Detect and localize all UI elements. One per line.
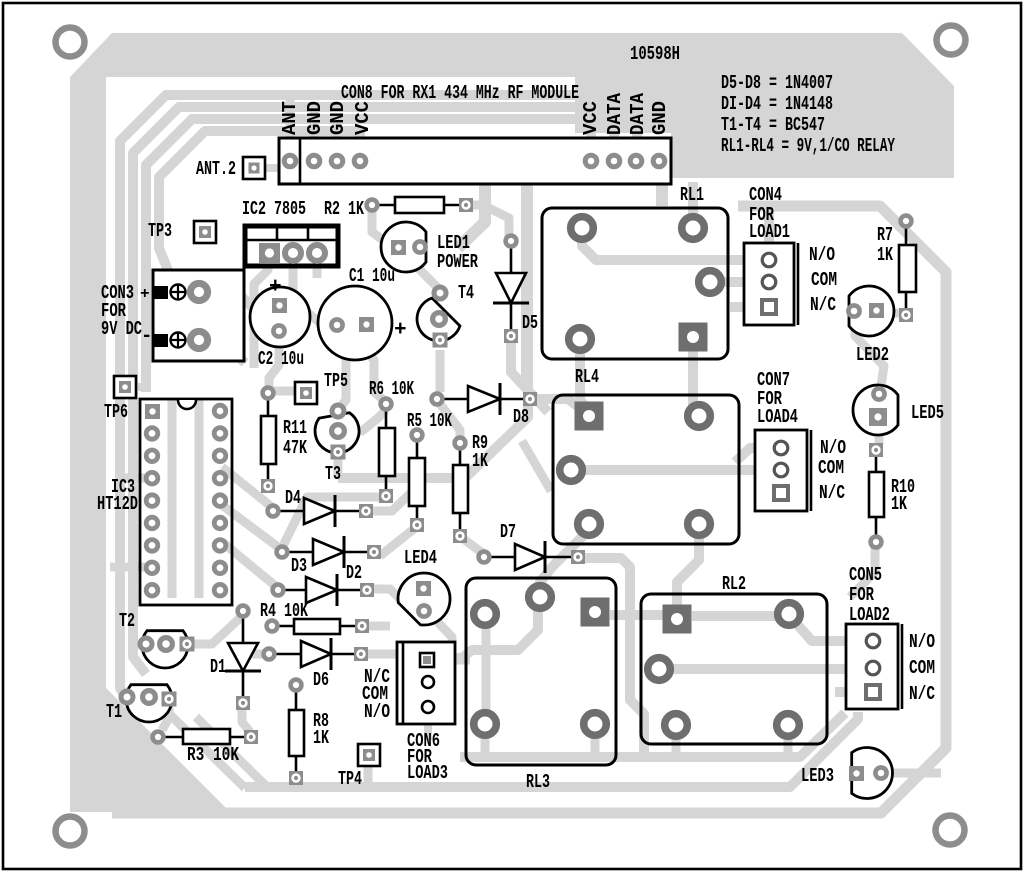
- svg-text:LOAD1: LOAD1: [749, 221, 790, 243]
- LED LED1: [381, 222, 426, 272]
- pad ANT.2: [243, 157, 265, 179]
- svg-text:D1: D1: [210, 656, 226, 678]
- connector CON4: [744, 243, 794, 325]
- wire (T3 square to band): [334, 456, 343, 476]
- resistor R7 1K: [905, 221, 908, 245]
- capacitor C2 10u: [250, 287, 310, 347]
- resistor R3 10K: [158, 736, 183, 739]
- wire (LED1 to T4): [420, 252, 438, 288]
- svg-text:T1-T4 = BC547: T1-T4 = BC547: [721, 114, 825, 136]
- wire (CON3 - diagonal): [198, 340, 245, 363]
- wire (CON3 + to C2): [198, 293, 258, 313]
- wire (D1 to R3): [242, 708, 250, 732]
- resistor R2 1K: [372, 204, 395, 207]
- capacitor C1 10u: [318, 286, 392, 360]
- svg-text:N/C: N/C: [819, 482, 845, 504]
- wire (IC2 pin stub): [254, 258, 268, 368]
- wire (T1 to R3): [162, 702, 169, 730]
- wire (RL2 pad stub 1): [672, 730, 681, 757]
- resistor R5 10K: [416, 435, 419, 458]
- wire (LED3 to edge ring): [887, 769, 941, 778]
- svg-text:D7: D7: [500, 521, 516, 543]
- wire (R8 to bottom trace): [291, 780, 300, 787]
- diode D3: [282, 551, 374, 554]
- wire (D8 to RL4): [538, 399, 580, 408]
- svg-text:ANT: ANT: [279, 101, 301, 135]
- wire (LED2 to LED5): [855, 318, 884, 392]
- LED LED2: [849, 286, 894, 336]
- resistor R6 10K: [385, 404, 388, 428]
- wire (RL1 pad to CON4 N/O): [582, 234, 769, 260]
- svg-text:TP6: TP6: [104, 401, 128, 423]
- wire (CON5 N/O to RL2): [795, 622, 867, 641]
- svg-text:HT12D: HT12D: [97, 493, 138, 515]
- wire (CON8 wrap trace 4): [159, 131, 360, 293]
- connector CON6: [397, 642, 455, 724]
- diode D6: [269, 653, 361, 656]
- svg-text:1K: 1K: [877, 244, 893, 266]
- connector CON5: [846, 624, 898, 709]
- resistor R4 10K: [272, 625, 294, 628]
- wire (LED5 to R10): [875, 422, 884, 444]
- svg-text:D5-D8 = 1N4007: D5-D8 = 1N4007: [721, 72, 833, 94]
- wire (D1 to D6): [246, 650, 266, 659]
- svg-text:GND: GND: [304, 101, 326, 135]
- wire (IC3 interior trace 2): [195, 398, 204, 598]
- svg-text:47K: 47K: [283, 437, 307, 459]
- wire (RL4 to RL3 top): [540, 530, 589, 592]
- wire (RL4 to RL2 coil): [677, 530, 699, 612]
- wire (T4 to D8): [436, 350, 445, 392]
- wire (RL3 pad stub 1): [481, 728, 490, 757]
- test point TP3: [194, 221, 216, 243]
- wire (CON8 wrap trace 1: right VCC pin to left side): [120, 95, 591, 700]
- wire (RL3 interior: left pads vertical): [482, 620, 491, 716]
- svg-text:COM: COM: [818, 457, 844, 479]
- svg-text:D3: D3: [291, 555, 307, 577]
- wire (CON8 pin stub ANT): [286, 95, 295, 155]
- svg-text:RL1: RL1: [680, 184, 704, 206]
- svg-text:N/O: N/O: [364, 701, 390, 723]
- wire (CON5 N/C stub): [835, 687, 867, 697]
- wire (CON4 N/C into RL1): [730, 302, 769, 312]
- svg-text:D5: D5: [522, 312, 538, 334]
- svg-text:1K: 1K: [313, 727, 329, 749]
- svg-text:LED2: LED2: [856, 344, 889, 366]
- wire (T3 to R6): [344, 410, 386, 431]
- wire (C1 to T3): [337, 330, 346, 410]
- svg-text:RL3: RL3: [526, 771, 550, 793]
- wire (T2 to D1): [187, 618, 240, 644]
- svg-text:T1: T1: [106, 701, 122, 723]
- svg-text:1K: 1K: [472, 450, 488, 472]
- svg-text:CON8 FOR RX1 434 MHz RF MODULE: CON8 FOR RX1 434 MHz RF MODULE: [341, 82, 579, 104]
- transistor T2: [142, 631, 188, 668]
- wire (IC3 to D4): [222, 467, 273, 508]
- wire (R2 left to LED1): [372, 208, 391, 246]
- LED LED4: [398, 573, 450, 625]
- wire (main horizontal to D8 hub): [338, 402, 528, 478]
- svg-text:C1 10u: C1 10u: [349, 265, 395, 287]
- wire (RL2 sq to RL2 top-right pad): [692, 611, 780, 621]
- wire (R10 down to CON5): [850, 546, 875, 597]
- svg-text:C2 10u: C2 10u: [258, 348, 304, 370]
- wire (D6 to CON6): [368, 650, 397, 659]
- svg-text:10598H: 10598H: [630, 43, 680, 65]
- wire (CON6 interior): [409, 646, 419, 684]
- wire (CON7 N/O into RL4): [735, 448, 782, 462]
- svg-text:CON5: CON5: [849, 564, 882, 586]
- svg-text:TP4: TP4: [338, 768, 362, 790]
- diode D2: [278, 589, 367, 592]
- svg-text:LOAD4: LOAD4: [757, 406, 798, 428]
- svg-text:1K: 1K: [891, 493, 907, 515]
- svg-text:VCC: VCC: [352, 101, 374, 135]
- wire (IC3 interior trace 1): [168, 398, 177, 598]
- wire (center feed CON8 to D8): [521, 184, 533, 388]
- diode D5: [510, 241, 513, 336]
- svg-text:+: +: [394, 319, 407, 342]
- wire (RL2 to CON5 COM): [659, 664, 867, 674]
- wire (C2 to R11): [269, 336, 279, 390]
- svg-text:T3: T3: [325, 463, 341, 485]
- wire (R5 bottom to D3 right): [380, 528, 415, 556]
- svg-text:ANT.2: ANT.2: [196, 158, 236, 180]
- wire (CON4 N/O up to pour): [764, 206, 774, 250]
- copper pour (ground plane, top block + left band + bottom-left wedge): [70, 33, 954, 178]
- wire (stub into RL1 top): [656, 182, 668, 206]
- wire (D2 right to LED4): [374, 589, 412, 611]
- regulator IC2 7805: [245, 226, 338, 266]
- svg-text:LOAD3: LOAD3: [407, 762, 448, 784]
- IC socket IC3 HT12D: [140, 399, 232, 605]
- wire (inner bottom trace): [245, 712, 858, 787]
- wire (board-edge ring trace right+bottom): [112, 206, 946, 813]
- svg-text:R4 10K: R4 10K: [260, 600, 308, 622]
- LED LED5: [853, 385, 898, 435]
- wire (R4 right stub): [369, 622, 390, 631]
- wire (CON6 ring2 stub down): [424, 714, 432, 740]
- wire (ANT.2 to CON8 pin): [254, 164, 290, 172]
- svg-text:N/O: N/O: [909, 631, 935, 653]
- svg-text:R7: R7: [877, 224, 893, 246]
- svg-text:N/O: N/O: [809, 244, 835, 266]
- svg-text:D8: D8: [513, 406, 529, 428]
- resistor R11 47K: [267, 393, 270, 416]
- wire (D7 to R9): [462, 538, 484, 554]
- LED LED3: [852, 748, 893, 799]
- svg-text:LED3: LED3: [801, 765, 834, 787]
- wire (TP4 to bottom trace): [364, 765, 373, 785]
- wire (RL3 interior: CON6 to top-middle pad): [427, 606, 538, 658]
- svg-text:COM: COM: [909, 657, 935, 679]
- svg-text:LED4: LED4: [404, 547, 437, 569]
- diode D7: [484, 556, 578, 559]
- svg-text:R5 10K: R5 10K: [407, 410, 452, 432]
- svg-text:9V DC: 9V DC: [101, 318, 142, 340]
- wire (CON8 wrap trace 2): [133, 107, 614, 674]
- svg-text:CON4: CON4: [749, 184, 782, 206]
- wire (R2 right to D5): [466, 205, 509, 238]
- wire (D8 left to R9): [440, 404, 460, 437]
- wire (D4 right to band): [372, 484, 420, 511]
- wire (RL3 pad stub 2): [591, 728, 600, 757]
- svg-text:+: +: [140, 285, 150, 303]
- svg-text:GND: GND: [327, 101, 349, 135]
- wire (R7 to LED2): [884, 309, 901, 318]
- wire (under-relay bottom trace): [460, 713, 845, 757]
- svg-text:-: -: [141, 325, 152, 347]
- wire (CON6 to RL3): [434, 656, 470, 665]
- wire (RL1 to CON4 COM): [710, 277, 769, 287]
- wire (IC2 pin to C1): [293, 258, 333, 323]
- transistor T1: [126, 685, 172, 722]
- wire (LED4 to RL3 area): [426, 610, 452, 652]
- svg-text:IC2 7805: IC2 7805: [242, 198, 306, 220]
- svg-text:GND: GND: [649, 101, 671, 135]
- wire (RL4 COM to CON7): [571, 465, 782, 475]
- wire (IC2 pad stub 3): [313, 258, 322, 278]
- wire (CON8 wrap trace 3): [146, 119, 637, 392]
- wire (RL1 to RL4 left): [580, 345, 589, 411]
- svg-text:T2: T2: [119, 610, 135, 632]
- wire (RL1 to RL4 right): [693, 343, 699, 413]
- transistor T4: [417, 298, 460, 341]
- wire (feed from CON8 down-left): [458, 184, 485, 248]
- wire (hub into RL4 left): [522, 441, 551, 491]
- wire (IC3 to D2): [222, 542, 278, 588]
- svg-text:D2: D2: [346, 562, 362, 584]
- wire (TP6 stub): [136, 383, 146, 391]
- svg-text:DATA: DATA: [604, 93, 626, 135]
- diode D1: [242, 611, 245, 703]
- test point TP4: [358, 744, 380, 766]
- resistor R9 1K: [459, 443, 462, 465]
- wire (CON8 pin stub GND2): [333, 119, 342, 155]
- wire (CON3 inner diagonal): [168, 297, 190, 319]
- wire (RL2 pad stub 2): [784, 730, 793, 757]
- diode D4: [273, 510, 366, 513]
- relay RL4: [553, 395, 739, 544]
- wire (IC3 left stub 1): [123, 474, 152, 483]
- svg-text:TP3: TP3: [148, 220, 172, 242]
- svg-text:R11: R11: [283, 417, 307, 439]
- svg-text:+: +: [269, 276, 282, 299]
- wire (D5 to RL4 coil): [511, 342, 548, 412]
- svg-text:TP5: TP5: [324, 370, 348, 392]
- svg-text:N/C: N/C: [810, 294, 836, 316]
- svg-text:POWER: POWER: [437, 251, 478, 273]
- resistor R10 1K: [875, 450, 878, 472]
- wire (C1 to R6): [367, 330, 386, 402]
- svg-text:R2 1K: R2 1K: [324, 198, 364, 220]
- wire (RL1 top-right pad stub): [688, 182, 698, 222]
- svg-text:COM: COM: [811, 269, 837, 291]
- transistor T3: [315, 413, 359, 453]
- mounting hole bottom-right: [936, 816, 965, 845]
- wire (IC3 left stub 2): [110, 563, 152, 572]
- mounting hole top-right: [937, 26, 966, 55]
- wire (RL3 sq to RL2 sq): [610, 610, 663, 620]
- svg-text:DATA: DATA: [627, 93, 649, 135]
- wire (CON7 N/C stub): [755, 488, 781, 498]
- svg-text:LOAD2: LOAD2: [849, 604, 890, 626]
- svg-text:N/O: N/O: [820, 437, 846, 459]
- svg-text:FOR: FOR: [849, 584, 874, 606]
- wire (IC3 to D3): [222, 505, 282, 550]
- svg-text:LED5: LED5: [911, 402, 944, 424]
- wire (R11 to TP5): [268, 387, 300, 396]
- svg-text:DI-D4 = 1N4148: DI-D4 = 1N4148: [721, 93, 833, 115]
- svg-text:RL4: RL4: [575, 366, 599, 388]
- test point TP6: [114, 376, 136, 398]
- resistor R8 1K: [295, 685, 298, 710]
- test point TP5: [295, 382, 317, 404]
- svg-text:N/C: N/C: [909, 683, 935, 705]
- diode D8: [437, 398, 530, 401]
- connector CON8 for RF module: [279, 138, 671, 184]
- svg-text:RL2: RL2: [722, 573, 746, 595]
- svg-text:R3 10K: R3 10K: [187, 744, 239, 766]
- svg-text:D4: D4: [285, 487, 301, 509]
- mounting hole bottom-left: [56, 817, 85, 846]
- wire (CON8 pin stub GND1): [310, 107, 319, 155]
- wire (diag to bottom band 2): [196, 717, 266, 786]
- connector CON7: [755, 430, 807, 511]
- svg-text:R6 10K: R6 10K: [369, 378, 414, 400]
- svg-text:RL1-RL4 = 9V,1/CO RELAY: RL1-RL4 = 9V,1/CO RELAY: [721, 135, 895, 157]
- wire (to R6 bottom / D3): [283, 497, 379, 546]
- wire (diag to bottom band 1): [160, 705, 245, 788]
- relay RL2: [641, 594, 827, 744]
- svg-text:VCC: VCC: [580, 101, 602, 135]
- relay body fills: [140, 399, 232, 605]
- mounting hole top-left: [56, 28, 85, 57]
- relay RL1: [542, 208, 728, 359]
- svg-text:D6: D6: [313, 669, 329, 691]
- wire (D7 right to bottom band): [578, 558, 644, 757]
- svg-text:T4: T4: [458, 282, 474, 304]
- connector CON3 9V DC: [153, 270, 244, 361]
- relay RL3: [466, 578, 616, 765]
